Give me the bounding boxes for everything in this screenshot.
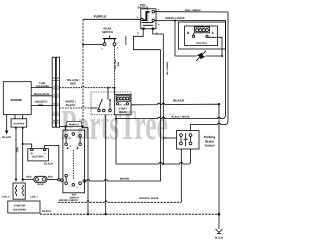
wire red starter to solenoid	[15, 129, 17, 179]
wire purple vertical (dashed)	[82, 19, 84, 126]
svg-text:1: 1	[57, 112, 59, 115]
svg-text:ENGINE: ENGINE	[11, 98, 23, 102]
node clutch bottom right	[221, 55, 223, 57]
seat switch symbol	[91, 88, 111, 112]
svg-text:3: 3	[57, 94, 59, 97]
svg-text:5: 5	[57, 77, 59, 80]
node purple corner	[81, 125, 83, 127]
svg-text:BROWN / WHITE: BROWN / WHITE	[59, 199, 78, 202]
svg-text:BROWN / WHITE: BROWN / WHITE	[140, 197, 159, 200]
svg-text:1: 1	[101, 48, 103, 51]
starter box	[11, 115, 27, 129]
node pin8 net joins	[162, 163, 164, 165]
wire relay coil feed	[114, 88, 116, 95]
svg-text:RED: RED	[70, 82, 76, 85]
node bus right	[218, 213, 221, 216]
svg-text:SOLENOID: SOLENOID	[36, 85, 49, 88]
wire module pin to parking brake	[116, 115, 191, 164]
svg-text:BLACK: BLACK	[44, 163, 53, 166]
svg-text:BATTERY: BATTERY	[32, 156, 44, 159]
clutch box	[178, 22, 225, 56]
svg-text:Switch: Switch	[205, 143, 215, 147]
label YELLOW / RED	[67, 79, 80, 86]
starter solenoid label box	[8, 201, 40, 213]
svg-text:GREEN / WH: GREEN / WH	[166, 62, 169, 76]
wire regulator	[31, 95, 52, 97]
svg-text:BLACK: BLACK	[215, 237, 224, 240]
svg-text:3: 3	[53, 94, 55, 97]
svg-text:FUSE: FUSE	[37, 183, 44, 186]
node black/white end	[115, 118, 117, 120]
svg-text:COIL 1: COIL 1	[30, 195, 38, 198]
node yellow/red to relay	[114, 87, 116, 89]
node ground bus left	[87, 213, 89, 215]
wire green/white	[116, 21, 226, 119]
wire battery minus	[45, 145, 59, 179]
svg-text:WHITE /: WHITE /	[65, 100, 75, 103]
wire yellow/red horizontal	[59, 86, 114, 87]
svg-text:1: 1	[137, 16, 139, 19]
svg-text:4: 4	[158, 23, 160, 26]
svg-text:1: 1	[53, 112, 55, 115]
engine box	[3, 82, 31, 115]
rear switch SW2	[101, 27, 119, 51]
label FUEL SOLENOID	[36, 82, 49, 88]
svg-text:4: 4	[57, 86, 59, 89]
node battery plus junction	[22, 143, 24, 145]
svg-text:PURPLE: PURPLE	[69, 124, 80, 127]
svg-text:BLACK: BLACK	[2, 136, 11, 139]
svg-text:L: L	[69, 185, 71, 188]
wire fuel solenoid	[31, 86, 52, 88]
label PURPLE box	[67, 122, 82, 127]
label MAGNETO / KILL	[35, 101, 48, 107]
brown/white bus	[58, 201, 181, 203]
wire pto pin5	[134, 30, 161, 50]
wire battery plus	[23, 144, 32, 149]
ground arrow engine	[2, 115, 11, 140]
svg-text:PURPLE: PURPLE	[94, 15, 107, 19]
svg-text:G: G	[76, 186, 78, 189]
label KEY SWITCH	[69, 193, 79, 199]
svg-text:STARTER: STARTER	[13, 122, 24, 125]
wire module pin to ground bus	[105, 115, 107, 214]
wire purple (top horizontal)	[83, 18, 141, 20]
svg-text:−: −	[44, 150, 47, 155]
wire black mid right	[131, 103, 219, 105]
svg-text:B: B	[187, 31, 190, 35]
svg-text:7: 7	[158, 8, 160, 11]
svg-text:RED: RED	[26, 176, 31, 179]
svg-text:BROWN: BROWN	[120, 178, 130, 181]
wire key to brown vertical	[85, 50, 161, 181]
label WHITE / BLACK	[65, 100, 75, 107]
svg-text:YELLOW /: YELLOW /	[67, 79, 80, 82]
wire pto pin8	[153, 30, 164, 164]
start relay K1	[115, 95, 131, 115]
label Parking Brake Switch	[204, 135, 215, 147]
node bus mid	[105, 213, 107, 215]
svg-text:REGULATOR: REGULATOR	[34, 93, 50, 96]
key switch box	[61, 130, 86, 193]
wire magneto/kill	[31, 105, 52, 107]
arrowhead left	[15, 179, 18, 182]
svg-text:BLACK / WHITE: BLACK / WHITE	[171, 116, 189, 119]
node purple/rear junction	[82, 44, 84, 46]
svg-text:5: 5	[53, 77, 55, 80]
wire red/green	[154, 12, 228, 131]
svg-text:RED: RED	[16, 147, 19, 152]
parking brake switch	[177, 131, 200, 150]
wire white/black	[59, 107, 91, 108]
svg-text:BLACK: BLACK	[42, 210, 51, 213]
svg-text:5: 5	[137, 32, 139, 35]
svg-text:4: 4	[53, 86, 55, 89]
svg-text:BLACK: BLACK	[66, 104, 75, 107]
svg-text:SWITCH: SWITCH	[102, 30, 113, 34]
svg-text:SOLENOID: SOLENOID	[13, 208, 26, 211]
interlock module box	[91, 92, 131, 115]
svg-text:6: 6	[57, 120, 59, 123]
watermark PartsTree	[61, 102, 176, 149]
node purple pin6	[65, 125, 67, 127]
wire purple to key switch	[59, 125, 83, 127]
svg-text:BROWN: BROWN	[124, 36, 127, 45]
wire to rear switch	[83, 44, 103, 46]
svg-text:KILL: KILL	[38, 104, 44, 107]
node green/white clutch	[174, 20, 176, 22]
svg-text:85: 85	[124, 103, 126, 106]
ground symbol right	[215, 229, 224, 240]
wire key pin stub	[65, 126, 67, 130]
svg-text:YELLOW /: YELLOW /	[114, 59, 117, 70]
svg-text:RED: RED	[117, 62, 120, 67]
svg-text:STARTER: STARTER	[14, 204, 26, 207]
svg-text:RELAY: RELAY	[119, 111, 128, 114]
svg-text:BLACK: BLACK	[173, 99, 185, 103]
svg-text:6: 6	[53, 120, 55, 123]
connector slash	[196, 51, 206, 61]
label YELLOW / RED vertical	[114, 59, 120, 70]
starter solenoid coil box	[13, 183, 25, 199]
wire parking brake left spur	[163, 137, 176, 139]
svg-text:A: A	[212, 31, 215, 35]
svg-text:86: 86	[120, 103, 122, 106]
wire yellow/red vertical	[114, 46, 116, 88]
wire battery+ to solenoid	[22, 129, 24, 182]
connector strip J1	[52, 57, 59, 127]
wire purple-to-ground-bus vertical	[83, 126, 89, 214]
svg-text:RED / GREEN: RED / GREEN	[185, 9, 201, 12]
PTO switch	[137, 4, 161, 35]
svg-text:RED: RED	[48, 176, 53, 179]
ground bus wire	[40, 213, 219, 215]
wire white clutch left	[174, 21, 176, 57]
node black junction	[218, 103, 220, 105]
fuse F1	[23, 176, 61, 187]
node yellow/red to interlock	[107, 87, 109, 89]
wire black vertical to ground	[218, 104, 220, 229]
svg-text:CLUTCH: CLUTCH	[196, 42, 207, 45]
svg-text:COIL 2: COIL 2	[2, 196, 10, 199]
svg-text:2: 2	[53, 102, 55, 105]
arrowhead right	[21, 179, 24, 182]
battery box	[28, 149, 49, 161]
clutch bottom wire with connector	[175, 55, 197, 57]
svg-text:2: 2	[57, 102, 59, 105]
svg-text:2: 2	[117, 47, 119, 50]
